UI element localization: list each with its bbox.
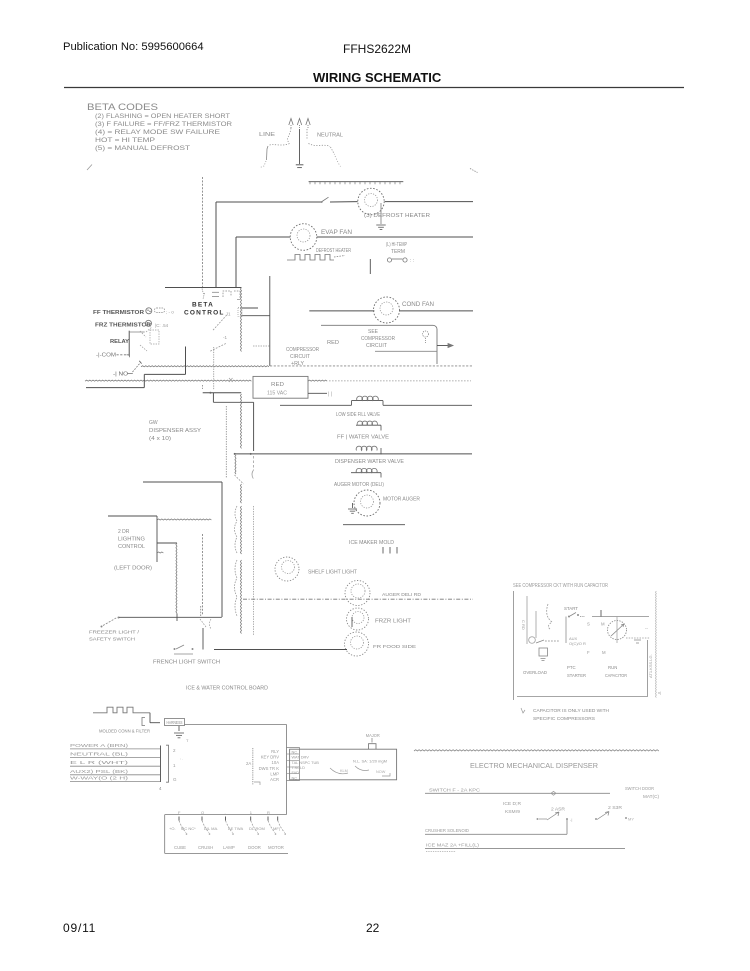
svg-text:C RD: C RD bbox=[521, 620, 526, 630]
svg-text:FF THERMISTOR: FF THERMISTOR bbox=[93, 310, 144, 316]
svg-text:GW: GW bbox=[149, 420, 158, 426]
svg-text:S: S bbox=[587, 622, 590, 627]
svg-text:--: -- bbox=[645, 626, 648, 631]
svg-text:O: O bbox=[201, 810, 204, 815]
svg-text:BETA: BETA bbox=[192, 302, 214, 309]
svg-text:CIRCUIT: CIRCUIT bbox=[366, 343, 387, 349]
svg-text:POWER A (BRN): POWER A (BRN) bbox=[70, 743, 129, 748]
svg-text:CONTROL: CONTROL bbox=[184, 310, 225, 317]
svg-text:ICE MAZ 2A +FILL(L): ICE MAZ 2A +FILL(L) bbox=[426, 843, 480, 848]
svg-text:MOTOR AUGER: MOTOR AUGER bbox=[383, 497, 420, 503]
svg-text:AUGER MOTOR (DELI): AUGER MOTOR (DELI) bbox=[334, 482, 384, 488]
svg-text:SWITCH F - 2A KPC: SWITCH F - 2A KPC bbox=[429, 788, 481, 793]
svg-text:SWITCH DOOR: SWITCH DOOR bbox=[625, 786, 654, 791]
svg-text:RUN: RUN bbox=[608, 665, 617, 670]
svg-text:LOW SIDE FILL VALVE: LOW SIDE FILL VALVE bbox=[336, 412, 381, 418]
svg-text:MOLDED CONN & FILTER: MOLDED CONN & FILTER bbox=[99, 729, 150, 735]
svg-text:(L) HI-TEMP: (L) HI-TEMP bbox=[386, 242, 407, 248]
svg-text:EVAP FAN: EVAP FAN bbox=[321, 230, 352, 236]
svg-text:O(C)/O R: O(C)/O R bbox=[569, 641, 586, 646]
svg-text:R: R bbox=[267, 810, 270, 815]
svg-text:MC NC*: MC NC* bbox=[181, 826, 196, 831]
svg-text:2: 2 bbox=[173, 748, 176, 753]
svg-text:RED: RED bbox=[271, 382, 284, 388]
svg-text:J1: J1 bbox=[226, 312, 231, 317]
svg-text:MAT(C): MAT(C) bbox=[643, 794, 660, 799]
svg-text:DOOR: DOOR bbox=[248, 845, 261, 850]
svg-text:(LEFT DOOR): (LEFT DOOR) bbox=[114, 566, 152, 572]
svg-text:G: G bbox=[173, 777, 177, 782]
svg-text:W-WAY(O (2 H): W-WAY(O (2 H) bbox=[70, 775, 129, 780]
svg-text:AT1.KSS.LG.: AT1.KSS.LG. bbox=[648, 654, 653, 678]
svg-text:2 ASR: 2 ASR bbox=[551, 807, 565, 812]
svg-text:NOW: NOW bbox=[376, 770, 386, 774]
svg-text:BETA CODES: BETA CODES bbox=[87, 102, 158, 112]
svg-text:STARTER: STARTER bbox=[567, 673, 586, 678]
svg-text:DL-ROM: DL-ROM bbox=[249, 826, 265, 831]
svg-text:-|-COM: -|-COM bbox=[96, 353, 116, 359]
svg-text:LIGHTING: LIGHTING bbox=[118, 537, 145, 543]
svg-text:AUX2) PSL (BK): AUX2) PSL (BK) bbox=[70, 769, 129, 774]
svg-text:CIRCUIT: CIRCUIT bbox=[290, 354, 310, 360]
svg-text:ELECTRO MECHANICAL DISPENSER: ELECTRO MECHANICAL DISPENSER bbox=[470, 763, 598, 770]
svg-text:10A: 10A bbox=[272, 760, 280, 765]
svg-text:CRUSH: CRUSH bbox=[198, 845, 213, 850]
svg-text:2 S3R: 2 S3R bbox=[608, 805, 622, 810]
svg-text:|C: .54: |C: .54 bbox=[155, 323, 169, 328]
svg-text:DISPENSER ASSY: DISPENSER ASSY bbox=[149, 428, 201, 434]
svg-text:SEE: SEE bbox=[368, 329, 379, 335]
svg-text:OVERLOAD: OVERLOAD bbox=[523, 670, 548, 675]
svg-text:KLM: KLM bbox=[340, 769, 348, 773]
svg-text:ICE MAKER MOLD: ICE MAKER MOLD bbox=[349, 540, 394, 546]
svg-text:LMP: LMP bbox=[270, 771, 279, 776]
svg-text:N.L. SA: 1/20 mgM: N.L. SA: 1/20 mgM bbox=[353, 759, 387, 764]
svg-text:FR FOOD SIDE: FR FOOD SIDE bbox=[373, 644, 416, 650]
svg-text:M: M bbox=[601, 622, 605, 627]
svg-text:SAFETY SWITCH: SAFETY SWITCH bbox=[89, 637, 136, 643]
svg-text:(2) FLASHING = OPEN HEATER: (2) FLASHING = OPEN HEATER SHORT bbox=[95, 114, 230, 120]
svg-text:2A: 2A bbox=[246, 761, 251, 766]
svg-text:DWS TR K: DWS TR K bbox=[259, 766, 280, 771]
svg-text:CAPACITOR: CAPACITOR bbox=[605, 673, 627, 678]
svg-text:FRZR LIGHT: FRZR LIGHT bbox=[375, 619, 411, 625]
svg-text:HOT = HI TEMP: HOT = HI TEMP bbox=[95, 138, 155, 144]
svg-text:CUBE: CUBE bbox=[174, 845, 186, 850]
svg-text:DISPENSER WATER VALVE: DISPENSER WATER VALVE bbox=[335, 459, 405, 465]
svg-text:FRENCH LIGHT SWITCH: FRENCH LIGHT SWITCH bbox=[153, 660, 220, 666]
svg-text:E L R (WHT): E L R (WHT) bbox=[70, 760, 129, 765]
svg-text:KSMr9: KSMr9 bbox=[505, 809, 521, 814]
svg-text:D|L MA.: D|L MA. bbox=[204, 826, 218, 831]
svg-text:MY: MY bbox=[628, 817, 634, 822]
svg-text:-|: -| bbox=[570, 817, 572, 822]
svg-text:NC: NC bbox=[292, 775, 298, 780]
svg-text:M: M bbox=[602, 650, 606, 655]
svg-text:4: 4 bbox=[159, 786, 162, 791]
svg-text:COND FAN: COND FAN bbox=[402, 302, 434, 308]
svg-text:ICE D;R: ICE D;R bbox=[503, 801, 521, 806]
svg-text:: .: : . bbox=[180, 756, 183, 761]
svg-text:HARNESS: HARNESS bbox=[167, 720, 183, 725]
svg-text:COMPRESSOR: COMPRESSOR bbox=[361, 336, 395, 342]
svg-text:SEE COMPRESSOR CKT WITH RUN CA: SEE COMPRESSOR CKT WITH RUN CAPACITOR bbox=[513, 583, 608, 589]
svg-text:ACR: ACR bbox=[270, 777, 279, 782]
svg-text:DEFROST HEATER: DEFROST HEATER bbox=[316, 248, 351, 254]
svg-text:CONTROL: CONTROL bbox=[118, 544, 145, 550]
svg-text:NEUTRAL: NEUTRAL bbox=[317, 133, 343, 139]
svg-text:-| NO: -| NO bbox=[113, 372, 128, 378]
svg-text:SPECIFIC COMPRESSORS: SPECIFIC COMPRESSORS bbox=[533, 716, 595, 722]
svg-text:; - o: ; - o bbox=[166, 310, 174, 315]
svg-text:(3) F FAILURE = FF/FRZ TH: (3) F FAILURE = FF/FRZ THERMISTOR bbox=[95, 122, 233, 128]
svg-text:FRZ THERMISTOR: FRZ THERMISTOR bbox=[95, 323, 151, 329]
svg-text:T: T bbox=[186, 738, 189, 743]
svg-text:.: . bbox=[225, 810, 226, 815]
svg-text:TERM: TERM bbox=[391, 249, 405, 255]
svg-text:1: 1 bbox=[173, 763, 176, 768]
svg-text:CAPACITOR IS ONLY USED WITH: CAPACITOR IS ONLY USED WITH bbox=[533, 708, 610, 714]
svg-text:KEY DRV: KEY DRV bbox=[261, 755, 279, 760]
svg-text:+O.: +O. bbox=[169, 826, 176, 831]
svg-text:ICE & WATER CONTROL BOARD: ICE & WATER CONTROL BOARD bbox=[186, 686, 268, 692]
svg-text:MOTOR: MOTOR bbox=[268, 845, 284, 850]
svg-text:+RLY: +RLY bbox=[291, 361, 305, 367]
svg-text:PTC: PTC bbox=[567, 665, 576, 670]
svg-text:(3) DEFROST HEATER: (3) DEFROST HEATER bbox=[364, 213, 430, 219]
svg-text:RELAY: RELAY bbox=[110, 339, 129, 345]
svg-text:-1: -1 bbox=[223, 335, 227, 340]
svg-text:NEUTRAL (BL): NEUTRAL (BL) bbox=[70, 751, 129, 756]
svg-text:x|: x| bbox=[658, 690, 661, 695]
svg-text:2 DR: 2 DR bbox=[118, 529, 130, 535]
svg-text:START: START bbox=[564, 606, 578, 611]
svg-text:AUGER DELI RD: AUGER DELI RD bbox=[382, 592, 422, 598]
svg-text:LINE: LINE bbox=[259, 132, 275, 138]
svg-text:CRUSHER SOLENOID: CRUSHER SOLENOID bbox=[425, 828, 470, 833]
svg-text:MF|: MF| bbox=[273, 826, 280, 831]
svg-text:MAJOR: MAJOR bbox=[366, 733, 380, 738]
svg-text:(5) = MANUAL DEFROST: (5) = MANUAL DEFROST bbox=[95, 146, 190, 152]
svg-text:(4 x 10): (4 x 10) bbox=[149, 436, 171, 442]
svg-text:115 VAC: 115 VAC bbox=[267, 391, 287, 397]
svg-text:FREEZER LIGHT /: FREEZER LIGHT / bbox=[89, 630, 140, 636]
svg-text:(4) = RELAY MODE SW FAILU: (4) = RELAY MODE SW FAILURE bbox=[95, 130, 220, 136]
svg-text:FF | WATER VALVE: FF | WATER VALVE bbox=[337, 435, 390, 441]
svg-text:COMPRESSOR: COMPRESSOR bbox=[286, 347, 319, 353]
svg-text:: :: : : bbox=[410, 258, 414, 264]
svg-text:LAMP: LAMP bbox=[223, 845, 235, 850]
svg-text:RED: RED bbox=[327, 340, 339, 346]
svg-text:F: F bbox=[587, 650, 590, 655]
svg-text:SHELF LIGHT LIGHT: SHELF LIGHT LIGHT bbox=[308, 570, 357, 576]
svg-text:RLY: RLY bbox=[271, 749, 279, 754]
svg-text:| |: | | bbox=[328, 392, 332, 398]
